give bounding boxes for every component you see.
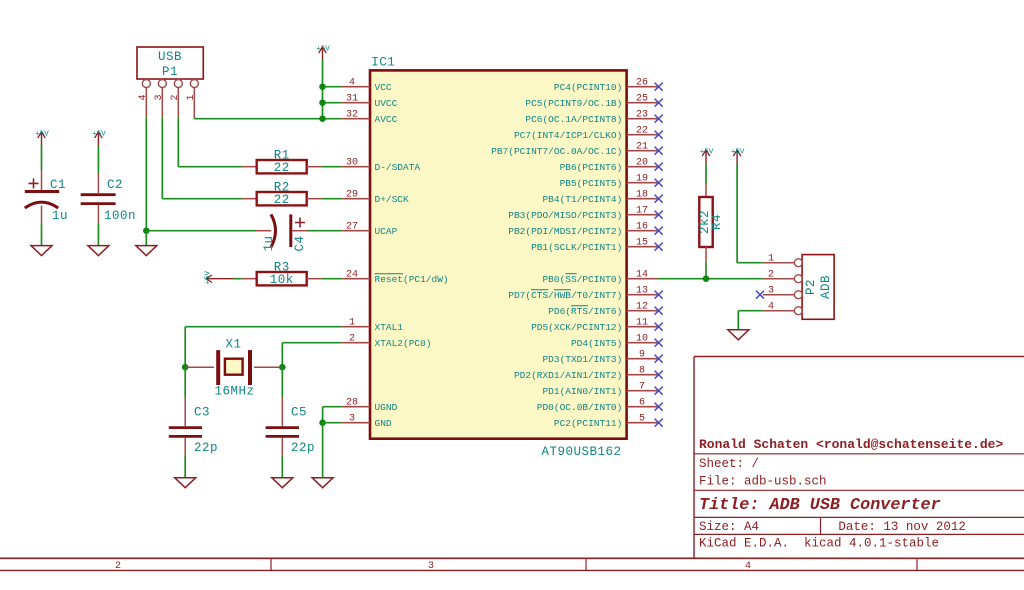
- svg-text:XTAL2(PC0): XTAL2(PC0): [375, 338, 432, 349]
- svg-text:File: adb-usb.sch: File: adb-usb.sch: [699, 474, 827, 488]
- svg-text:VCC: VCC: [375, 82, 392, 93]
- svg-text:AVCC: AVCC: [375, 114, 398, 125]
- svg-text:6: 6: [639, 398, 645, 409]
- IC1 pin 32 (AVCC): [342, 110, 398, 126]
- svg-text:PB6(PCINT6): PB6(PCINT6): [560, 162, 623, 173]
- wire C4 to IC pin 27 (UCAP): [307, 230, 342, 232]
- svg-text:P1: P1: [162, 65, 178, 79]
- IC1 pin 23 (PC6(OC.1A/PCINT8)): [525, 110, 657, 126]
- IC1 pin 4 (VCC): [342, 78, 392, 94]
- svg-text:PD1(AIN0/INT1): PD1(AIN0/INT1): [542, 386, 622, 397]
- svg-text:24: 24: [346, 270, 358, 281]
- no-connect pin 22: [655, 131, 663, 139]
- IC1 pin 10 (PD4(INT5)): [571, 334, 658, 350]
- svg-text:16MHz: 16MHz: [214, 385, 254, 399]
- svg-text:C5: C5: [291, 406, 307, 420]
- svg-text:PD4(INT5): PD4(INT5): [571, 338, 622, 349]
- junction GND net: [319, 419, 326, 426]
- IC1 pin 28 (UGND): [342, 398, 398, 414]
- svg-text:PB2(PDI/MDSI/PCINT2): PB2(PDI/MDSI/PCINT2): [508, 226, 622, 237]
- resistor R3 (10k): [241, 261, 322, 288]
- ground below C1: [31, 246, 52, 256]
- wire +5V to C1: [41, 145, 43, 170]
- svg-text:26: 26: [636, 78, 648, 89]
- wire C1 to ground: [41, 224, 43, 246]
- svg-text:100n: 100n: [104, 209, 136, 223]
- svg-text:13: 13: [636, 286, 648, 297]
- svg-text:15: 15: [636, 238, 648, 249]
- power +5V above P2 pin 1: [731, 149, 745, 164]
- svg-text:PB0(SS/PCINT0): PB0(SS/PCINT0): [542, 274, 622, 285]
- svg-text:PD2(RXD1/AIN1/INT2): PD2(RXD1/AIN1/INT2): [514, 370, 622, 381]
- IC IC1 (AT90USB162) body: [370, 56, 627, 460]
- wire P1 pin1 (VBUS) to +5V rail: [194, 117, 322, 119]
- svg-text:17: 17: [636, 206, 648, 217]
- svg-text:+5V: +5V: [205, 270, 213, 284]
- wire R2 to IC pin 29: [322, 198, 342, 200]
- svg-text:7: 7: [639, 382, 645, 393]
- svg-text:3: 3: [154, 94, 165, 100]
- svg-text:GND: GND: [375, 418, 392, 429]
- junction X1 left: [182, 364, 189, 371]
- svg-text:12: 12: [636, 302, 648, 313]
- P1 pin 4: [138, 80, 151, 119]
- title block sheet: [699, 457, 759, 471]
- wire GND to ground symbol: [322, 423, 324, 478]
- svg-text:2: 2: [170, 94, 181, 100]
- svg-text:+5V: +5V: [35, 131, 49, 139]
- svg-text:8: 8: [639, 366, 645, 377]
- svg-text:AT90USB162: AT90USB162: [541, 445, 621, 459]
- resistor R1 (22): [242, 149, 322, 176]
- svg-text:Sheet: /: Sheet: /: [699, 457, 759, 471]
- IC1 pin 26 (PC4(PCINT10)): [554, 78, 658, 94]
- no-connect pin 9: [655, 355, 663, 363]
- wire +5V to P2 pin 1: [737, 163, 763, 263]
- svg-text:PC5(PCINT9/OC.1B): PC5(PCINT9/OC.1B): [525, 98, 622, 109]
- IC1 pin 1 (XTAL1): [342, 318, 404, 334]
- svg-text:Size: A4: Size: A4: [699, 520, 759, 534]
- svg-text:C2: C2: [107, 178, 123, 192]
- title block file: [699, 474, 827, 488]
- wire C2 to ground: [97, 224, 99, 246]
- wire +5V to C2: [97, 145, 99, 173]
- svg-text:22: 22: [636, 126, 648, 137]
- wire P2 pin 4 to ground: [738, 311, 762, 330]
- svg-text:PD5(XCK/PCINT12): PD5(XCK/PCINT12): [531, 322, 622, 333]
- no-connect pin 25: [655, 99, 663, 107]
- frame column number 4: [745, 561, 751, 572]
- svg-text:1: 1: [186, 94, 197, 100]
- IC1 pin 15 (PB1(SCLK/PCINT1)): [531, 238, 658, 254]
- no-connect pin 6: [655, 403, 663, 411]
- capacitor C1 (polarized 1u): [25, 170, 68, 224]
- wire XTAL1 net: [185, 327, 342, 368]
- svg-text:Ronald Schaten <ronald@schaten: Ronald Schaten <ronald@schatenseite.de>: [699, 437, 1003, 452]
- svg-text:27: 27: [346, 222, 358, 233]
- IC1 pin 14 (PB0(SS/PCINT0)): [542, 270, 657, 286]
- IC1 pin 18 (PB4(T1/PCINT4)): [542, 190, 657, 206]
- svg-text:22p: 22p: [291, 441, 315, 455]
- svg-text:25: 25: [636, 94, 648, 105]
- svg-text:Title: ADB USB Converter: Title: ADB USB Converter: [699, 496, 941, 515]
- svg-text:10k: 10k: [270, 273, 294, 287]
- P1 pin 1: [186, 80, 199, 119]
- IC1 pin 13 (PD7(CTS/HWB/T0/INT7)): [508, 286, 657, 302]
- svg-text:3: 3: [428, 561, 434, 572]
- svg-text:5: 5: [639, 414, 645, 425]
- svg-text:PB7(PCINT7/OC.0A/OC.1C): PB7(PCINT7/OC.0A/OC.1C): [491, 146, 622, 157]
- svg-text:1u: 1u: [262, 235, 276, 251]
- IC1 pin 22 (PC7(INT4/ICP1/CLKO)): [514, 126, 658, 142]
- wire UGND pin 28: [323, 407, 342, 423]
- svg-text:ADB: ADB: [819, 275, 833, 299]
- IC1 pin 2 (XTAL2(PC0)): [342, 334, 432, 350]
- no-connect pin 15: [655, 243, 663, 251]
- svg-text:PD3(TXD1/INT3): PD3(TXD1/INT3): [542, 354, 622, 365]
- svg-text:2: 2: [349, 334, 355, 345]
- IC1 pin 21 (PB7(PCINT7/OC.0A/OC.1C)): [491, 142, 657, 158]
- svg-text:19: 19: [636, 174, 648, 185]
- svg-text:14: 14: [636, 270, 648, 281]
- no-connect pin 10: [655, 339, 663, 347]
- connector P2 body (ADB): [802, 255, 834, 320]
- wire R1 to IC pin 30: [322, 166, 342, 168]
- svg-text:11: 11: [636, 318, 648, 329]
- title block frame lines: [694, 357, 1024, 559]
- svg-text:D-/SDATA: D-/SDATA: [375, 162, 421, 173]
- svg-text:PD6(RTS/INT6): PD6(RTS/INT6): [548, 306, 622, 317]
- svg-text:10: 10: [636, 334, 648, 345]
- svg-text:C4: C4: [293, 235, 307, 251]
- no-connect pin 7: [655, 387, 663, 395]
- power +5V above C2: [92, 131, 106, 146]
- wire R4 to PB0 net: [705, 263, 707, 279]
- crystal X1 (16MHz): [185, 338, 280, 399]
- svg-text:XTAL1: XTAL1: [375, 322, 404, 333]
- svg-text:+5V: +5V: [316, 46, 330, 54]
- no-connect pin 12: [655, 307, 663, 315]
- junction PB0/R4: [703, 275, 710, 282]
- IC1 pin 20 (PB6(PCINT6)): [560, 158, 658, 174]
- IC1 pin 31 (UVCC): [342, 94, 398, 110]
- no-connect pin 16: [655, 227, 663, 235]
- no-connect pin 13: [655, 291, 663, 299]
- svg-text:22: 22: [274, 193, 290, 207]
- no-connect pin 21: [655, 147, 663, 155]
- no-connect pin 11: [655, 323, 663, 331]
- P2 pin 1: [763, 254, 803, 267]
- junction VCC: [319, 83, 326, 90]
- svg-text:1: 1: [349, 318, 355, 329]
- P1 pin 3: [154, 80, 167, 119]
- svg-text:PB5(PCINT5): PB5(PCINT5): [560, 178, 623, 189]
- svg-text:IC1: IC1: [371, 56, 395, 70]
- wire P1 pin3 (D+) down and right to R2: [162, 118, 242, 199]
- wire +5V to R4: [705, 163, 707, 184]
- svg-text:PB3(PDO/MISO/PCINT3): PB3(PDO/MISO/PCINT3): [508, 210, 622, 221]
- IC1 pin 7 (PD1(AIN0/INT1)): [542, 382, 657, 398]
- wire PB0 net (pin 14 to P2 pin 2): [658, 278, 763, 280]
- title block date: [838, 520, 966, 534]
- wire stub to VCC pin: [323, 86, 342, 88]
- svg-text:P2: P2: [804, 279, 818, 295]
- IC1 pin 30 (D-/SDATA): [342, 158, 421, 174]
- svg-text:PC4(PCINT10): PC4(PCINT10): [554, 82, 622, 93]
- svg-text:PC7(INT4/ICP1/CLKO): PC7(INT4/ICP1/CLKO): [514, 130, 622, 141]
- IC1 pin 19 (PB5(PCINT5)): [560, 174, 658, 190]
- wire C3 to ground: [184, 456, 186, 478]
- svg-text:+5V: +5V: [700, 149, 714, 157]
- svg-text:PD7(CTS/HWB/T0/INT7): PD7(CTS/HWB/T0/INT7): [508, 290, 622, 301]
- IC1 pin 25 (PC5(PCINT9/OC.1B)): [525, 94, 657, 110]
- junction UCAP/GND net: [143, 227, 150, 234]
- IC1 pin 5 (PC2(PCINT11)): [554, 414, 658, 430]
- svg-text:2: 2: [115, 561, 121, 572]
- wire X1 left to C3: [184, 367, 186, 397]
- svg-text:D+/SCK: D+/SCK: [375, 194, 410, 205]
- svg-text:4: 4: [745, 561, 751, 572]
- no-connect P2 pin 3: [756, 291, 764, 299]
- IC1 pin 12 (PD6(RTS/INT6)): [548, 302, 657, 318]
- capacitor C4 (polarized 1u, horizontal): [256, 214, 307, 251]
- svg-text:16: 16: [636, 222, 648, 233]
- IC1 pin 27 (UCAP): [342, 222, 398, 238]
- svg-text:PD0(OC.0B/INT0): PD0(OC.0B/INT0): [537, 402, 623, 413]
- svg-text:PC2(PCINT11): PC2(PCINT11): [554, 418, 622, 429]
- ground below GND pins: [312, 478, 333, 488]
- svg-text:Date: 13 nov 2012: Date: 13 nov 2012: [838, 520, 966, 534]
- svg-text:C1: C1: [50, 178, 66, 192]
- IC1 pin 24 (Reset(PC1/dW)): [342, 270, 449, 286]
- ground below C2: [88, 246, 109, 256]
- IC1 pin 6 (PD0(OC.0B/INT0)): [537, 398, 658, 414]
- ground below P1 pin4: [136, 246, 157, 256]
- svg-text:4: 4: [349, 78, 355, 89]
- svg-text:4: 4: [138, 94, 149, 100]
- frame column number 2: [115, 561, 121, 572]
- wire P1 pin4 to ground net (vertical): [145, 118, 147, 231]
- no-connect pin 8: [655, 371, 663, 379]
- wire stub to AVCC pin: [323, 118, 342, 120]
- svg-text:3: 3: [768, 286, 774, 297]
- resistor R4 (2k2, vertical): [698, 184, 724, 263]
- svg-text:UVCC: UVCC: [375, 98, 398, 109]
- P2 pin 2: [763, 270, 803, 283]
- svg-text:1u: 1u: [52, 209, 68, 223]
- svg-text:30: 30: [346, 158, 358, 169]
- svg-text:PB4(T1/PCINT4): PB4(T1/PCINT4): [542, 194, 622, 205]
- IC1 pin 11 (PD5(XCK/PCINT12)): [531, 318, 658, 334]
- svg-text:21: 21: [636, 142, 648, 153]
- junction AVCC: [319, 115, 326, 122]
- svg-text:USB: USB: [158, 50, 182, 64]
- wire XTAL2 net: [282, 343, 342, 368]
- sheet frame border lines: [0, 558, 1024, 570]
- P1 pin 2: [170, 80, 183, 119]
- no-connect pin 23: [655, 115, 663, 123]
- title block title: [699, 496, 941, 515]
- svg-text:UGND: UGND: [375, 402, 398, 413]
- power +5V above R4: [700, 149, 714, 164]
- junction UVCC: [319, 99, 326, 106]
- capacitor C2 (100n): [81, 173, 136, 224]
- svg-text:+5V: +5V: [92, 131, 106, 139]
- svg-text:C3: C3: [194, 406, 210, 420]
- svg-text:1: 1: [768, 254, 774, 265]
- IC1 pin 29 (D+/SCK): [342, 190, 409, 206]
- wire +5V to R3: [234, 278, 241, 280]
- svg-text:22: 22: [274, 161, 290, 175]
- svg-text:28: 28: [346, 398, 358, 409]
- wire R3 to IC pin 24 (Reset): [322, 278, 342, 280]
- svg-text:X1: X1: [225, 338, 241, 352]
- wire stub to UVCC pin: [323, 102, 342, 104]
- svg-text:PC6(OC.1A/PCINT8): PC6(OC.1A/PCINT8): [525, 114, 622, 125]
- no-connect pin 19: [655, 179, 663, 187]
- svg-text:9: 9: [639, 350, 645, 361]
- svg-text:PB1(SCLK/PCINT1): PB1(SCLK/PCINT1): [531, 242, 622, 253]
- connector P1 body (USB): [137, 47, 203, 79]
- svg-text:R4: R4: [710, 214, 724, 230]
- ground below P2: [728, 330, 749, 340]
- capacitor C3 (22p): [169, 397, 218, 456]
- svg-text:Reset(PC1/dW): Reset(PC1/dW): [375, 274, 449, 285]
- IC1 pin 8 (PD2(RXD1/AIN1/INT2)): [514, 366, 658, 382]
- ground below C5: [272, 478, 293, 488]
- wire C5 to ground: [281, 456, 283, 478]
- svg-text:31: 31: [346, 94, 358, 105]
- title block size: [699, 520, 759, 534]
- svg-text:20: 20: [636, 158, 648, 169]
- no-connect pin 5: [655, 419, 663, 427]
- wire X1 right to C5: [281, 367, 283, 397]
- P2 pin 4: [763, 302, 803, 315]
- no-connect pin 26: [655, 83, 663, 91]
- no-connect pin 17: [655, 211, 663, 219]
- IC1 pin 3 (GND): [342, 414, 392, 430]
- IC1 pin 17 (PB3(PDO/MISO/PCINT3)): [508, 206, 657, 222]
- title block comment (author): [699, 437, 1003, 452]
- wire junction to C4 left plate: [146, 230, 256, 232]
- IC1 pin 9 (PD3(TXD1/INT3)): [542, 350, 657, 366]
- power +5V above C1: [35, 131, 49, 146]
- capacitor C5 (22p): [266, 397, 315, 456]
- no-connect pin 20: [655, 163, 663, 171]
- svg-text:3: 3: [349, 414, 355, 425]
- wire junction down to ground: [145, 231, 147, 246]
- power +5V above VCC rail: [316, 46, 330, 61]
- P2 pin 3: [763, 286, 803, 299]
- ground below C3: [175, 478, 196, 488]
- no-connect pin 18: [655, 195, 663, 203]
- junction X1 right: [279, 364, 286, 371]
- wire GND pin 3: [323, 422, 342, 424]
- power +5V left of R3 (rotated): [205, 270, 235, 284]
- IC1 pin 16 (PB2(PDI/MDSI/PCINT2)): [508, 222, 657, 238]
- title block tool version: [699, 536, 939, 550]
- wire +5V rail vertical: [322, 60, 324, 119]
- svg-text:UCAP: UCAP: [375, 226, 398, 237]
- svg-text:4: 4: [768, 302, 774, 313]
- svg-text:22p: 22p: [194, 441, 218, 455]
- svg-text:23: 23: [636, 110, 648, 121]
- svg-text:32: 32: [346, 110, 358, 121]
- svg-text:+5V: +5V: [731, 149, 745, 157]
- frame column number 3: [428, 561, 434, 572]
- wire P1 pin2 (D-) down and right to R1: [178, 118, 242, 167]
- resistor R2 (22): [242, 181, 322, 208]
- svg-text:KiCad E.D.A. kicad 4.0.1-stab: KiCad E.D.A. kicad 4.0.1-stable: [699, 536, 939, 550]
- svg-text:2: 2: [768, 270, 774, 281]
- svg-text:18: 18: [636, 190, 648, 201]
- svg-text:29: 29: [346, 190, 358, 201]
